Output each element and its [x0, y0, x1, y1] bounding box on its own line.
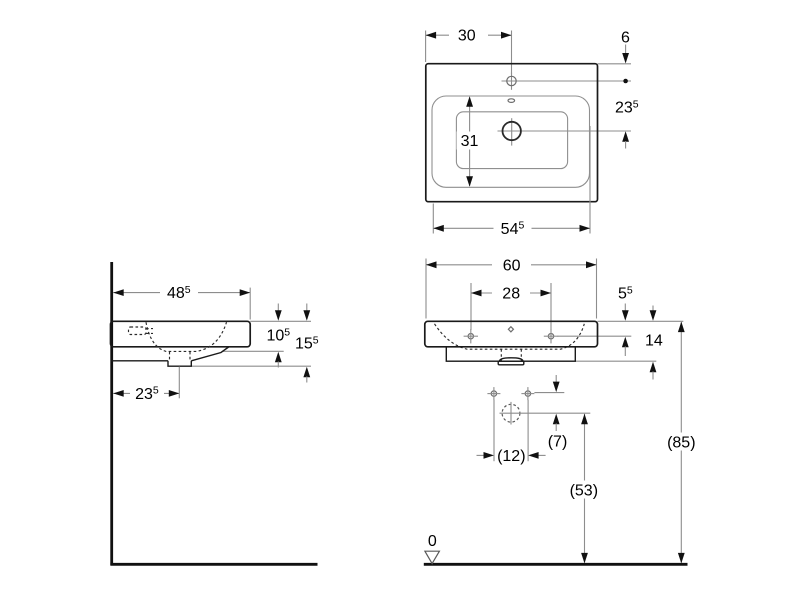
dim 54.5 extension right	[589, 126, 591, 234]
dim 30 extension/center line right	[511, 31, 513, 75]
drain cross vertical line	[511, 118, 513, 145]
fixing hole level line right	[534, 392, 564, 394]
dim 28 extension left	[470, 283, 472, 330]
hidden drain pipe (side view)	[169, 352, 171, 361]
dim 53 label	[565, 481, 604, 499]
svg-text:(85): (85)	[667, 434, 695, 451]
dim 48.5 arrow left	[113, 289, 124, 296]
dim 15.5 up arrow	[303, 367, 310, 378]
tap hole cross vertical	[511, 73, 513, 90]
drain stub (side view)	[168, 361, 191, 366]
svg-text:55: 55	[618, 285, 633, 303]
dim 23.5 arrow right (side)	[169, 390, 180, 397]
svg-text:155: 155	[295, 334, 319, 352]
dim 12 right tail and arrow	[538, 454, 546, 456]
svg-text:31: 31	[461, 133, 479, 150]
washbasin slab (front view)	[425, 321, 598, 347]
dim 53 up arrow	[581, 414, 588, 425]
tap hole cross right (front view)	[548, 334, 553, 339]
dim 7 down arrow	[555, 375, 557, 383]
dim 28 arrow right	[541, 290, 552, 297]
dim 12 extension left	[493, 400, 495, 461]
dim 85 down arrow	[678, 553, 685, 564]
tap line extension right	[558, 335, 632, 337]
dim 23.5 arrow left (side)	[113, 390, 124, 397]
dim 28 label	[492, 285, 530, 301]
dim 48.5 label	[160, 285, 198, 301]
hidden bowl outline (front view)	[435, 324, 585, 349]
dim 6 down arrow	[625, 45, 627, 54]
dim 14 down arrow	[652, 306, 654, 312]
pedestal step (front view)	[446, 347, 575, 361]
dim 5.5 up arrow	[622, 337, 629, 348]
dim 60 label	[492, 257, 531, 273]
dim 30 dimension line	[426, 34, 512, 36]
dim 48.5 extension right	[249, 288, 251, 320]
svg-text:30: 30	[458, 28, 476, 45]
dim 48.5 dimension line	[113, 292, 250, 294]
dim 54.5 extension left	[432, 204, 434, 234]
underside diagonal	[191, 347, 228, 361]
svg-text:60: 60	[503, 257, 521, 274]
dim 14 up arrow	[650, 362, 657, 373]
trap cover base	[498, 361, 524, 365]
svg-text:105: 105	[267, 326, 291, 344]
dim 54.5 arrow right	[580, 225, 591, 232]
floor line right segment	[424, 563, 688, 566]
dim 6 top-edge extension line	[598, 63, 632, 65]
overflow diamond (front view)	[508, 327, 513, 332]
fixing hole left cross	[491, 391, 496, 396]
dim 31 up arrow	[466, 96, 473, 107]
dim 15.5 down arrow	[306, 304, 308, 312]
dim 31 vertical line	[469, 98, 471, 186]
dim 60 extension right	[596, 259, 598, 319]
top edge extension right (side view)	[250, 320, 311, 322]
washbasin slab (side view)	[111, 321, 251, 347]
dim 28 arrow left	[471, 290, 482, 297]
floor line left segment	[110, 563, 317, 566]
dim 48.5 arrow right	[240, 289, 251, 296]
dim 85 up arrow	[678, 322, 685, 333]
dim 23.5 label (side)	[130, 386, 164, 402]
siphon cross vertical	[510, 402, 512, 425]
dim 60 dimension line	[426, 264, 597, 266]
drain circle	[503, 122, 521, 140]
svg-text:(7): (7)	[548, 434, 568, 451]
dim 28 extension right	[550, 283, 552, 330]
dim 30 arrow right	[501, 32, 512, 39]
basin inner bottom rounded rect	[456, 112, 567, 169]
dim 30 label	[449, 27, 488, 43]
wall line	[110, 262, 113, 565]
dim 54.5 label	[494, 220, 532, 236]
dim 23.5 dimension line (side)	[113, 392, 179, 394]
dim 31 down arrow	[466, 176, 473, 187]
dim 30 extension line left	[425, 31, 427, 63]
dim 10.5 down arrow	[277, 304, 279, 312]
dim 6 dot	[623, 79, 628, 84]
dim 60 arrow left	[426, 261, 437, 268]
tap hole cross left (front view)	[468, 334, 473, 339]
siphon level line to 53	[500, 412, 591, 414]
hidden bowl outline (side view)	[146, 322, 227, 351]
svg-text:(53): (53)	[570, 482, 598, 499]
dim 7 up arrow	[553, 414, 560, 425]
dim 10.5 up arrow	[275, 352, 282, 363]
datum triangle	[425, 551, 440, 563]
tap hole line to dot	[502, 80, 632, 82]
svg-text:14: 14	[645, 332, 663, 349]
step bottom extension right	[575, 360, 656, 362]
svg-text:0: 0	[428, 533, 437, 550]
dim 12 left tail and arrow	[477, 454, 485, 456]
washbasin outer rect (top view)	[426, 64, 598, 202]
dim 54.5 dimension line	[433, 227, 590, 229]
dim 85 vertical line	[680, 322, 682, 562]
tap hole circle	[507, 76, 516, 85]
dim 53 vertical line	[584, 414, 586, 563]
dim 28 dimension line	[471, 292, 551, 294]
svg-text:28: 28	[502, 286, 520, 303]
dim 53 down arrow	[581, 553, 588, 564]
hidden overflow channel (side view)	[129, 327, 147, 335]
dim 30 arrow left	[426, 32, 437, 39]
svg-text:6: 6	[621, 30, 630, 47]
basin rim rounded rect	[432, 96, 590, 187]
dim 5.5 down arrow	[624, 304, 626, 312]
bowl bottom line (10.5 reference)	[222, 350, 284, 352]
hidden drain pipe (front view)	[500, 349, 502, 360]
dim 60 arrow right	[586, 261, 597, 268]
stub bottom line (15.5 reference)	[192, 365, 311, 367]
dim 85 label	[662, 433, 701, 451]
svg-text:(12): (12)	[497, 448, 525, 465]
top edge extension to right	[598, 320, 684, 322]
svg-text:235: 235	[615, 99, 639, 117]
trap cover dome	[499, 358, 523, 361]
drain cross horizontal line to arrow	[498, 130, 632, 132]
drain center extension line (side)	[178, 367, 180, 399]
overflow slot top view	[508, 99, 515, 103]
dim 23.5 up arrow	[622, 131, 629, 142]
dim 54.5 arrow left	[433, 225, 444, 232]
dim 31 label	[457, 132, 483, 150]
fixing hole right cross	[525, 391, 530, 396]
siphon hole dashed circle	[502, 404, 520, 422]
underside pedestal line	[111, 360, 169, 362]
dim 60 extension left	[425, 259, 427, 319]
dim 12 extension right	[527, 400, 529, 461]
